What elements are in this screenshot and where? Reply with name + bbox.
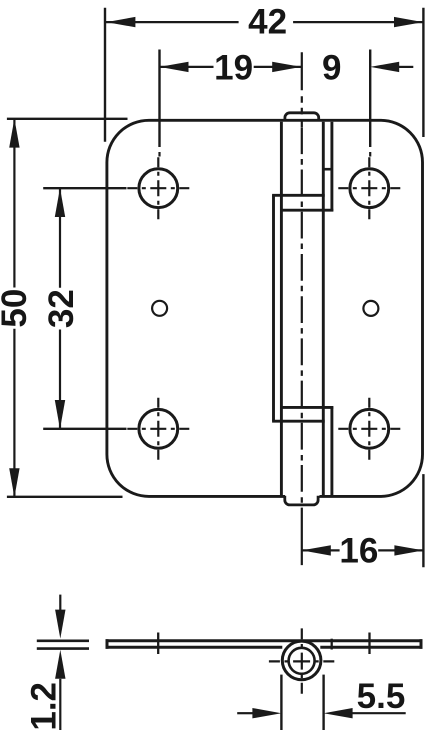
side view: barrel outer circle — [282, 641, 321, 680]
dimension 50: dimension line — [13, 119, 15, 288]
side view: barrel inner circle — [289, 648, 315, 674]
knuckle left edge line V2 — [280, 122, 283, 495]
dimension 32: extension line bottom — [43, 428, 126, 430]
crosshair top-left hole — [127, 157, 189, 219]
dimension 5.5: right outside arrow with tail — [324, 708, 353, 718]
dimension 32: arrowheads — [55, 188, 65, 217]
side view: bar left end cap — [106, 639, 109, 649]
screw hole top-right — [350, 169, 389, 208]
crosshair bottom-left hole — [127, 398, 189, 460]
dimension 16: extension line right — [422, 474, 424, 567]
dimension 19: dimension line — [160, 66, 214, 68]
svg-text:5.5: 5.5 — [357, 677, 406, 716]
svg-text:19: 19 — [214, 48, 253, 87]
svg-text:1.2: 1.2 — [25, 682, 64, 730]
knuckle joint line H1 — [272, 194, 325, 197]
small rung between V3 and V4 — [323, 168, 332, 171]
side view: barrel crosshair — [269, 628, 335, 695]
hinge leaf plate outline (plan view) — [107, 120, 423, 496]
side view: screw hole mark left — [157, 633, 159, 655]
right leaf edge line V4 upper segment — [330, 122, 333, 212]
dimension 1.2: lower arrow — [55, 650, 65, 679]
crosshair top-right hole — [338, 157, 400, 219]
dimension 32: extension line top — [43, 187, 126, 189]
side view: leaf bar top edge — [106, 639, 423, 642]
dimension 50: extension line top — [7, 118, 128, 120]
screw hole bottom-left — [139, 409, 178, 448]
small pin hole left — [152, 301, 167, 316]
dimension 1.2: extension line bottom — [37, 647, 89, 650]
knuckle right edge line V3 — [322, 122, 325, 495]
pin cap bottom — [285, 496, 318, 505]
dimension 1.2: upper arrow — [59, 595, 61, 612]
dimension 16: arrowheads — [302, 545, 331, 555]
dimension 19: arrowheads — [160, 62, 189, 72]
side view: screw hole mark right — [368, 633, 370, 655]
pin cap top — [285, 113, 319, 121]
screw hole top-left — [139, 169, 178, 208]
dimension 9: outside arrow with tail — [370, 62, 399, 72]
eraser gap in plate bottom edge behind pin cap — [285, 494, 320, 499]
dimension 42: arrowheads — [106, 17, 135, 27]
knuckle joint line H2 — [280, 209, 333, 212]
dimension 42: dimension line — [106, 21, 239, 23]
dimension 5.5: extension line left — [280, 675, 282, 730]
dimension 1.2: extension line top — [37, 639, 89, 642]
svg-text:50: 50 — [0, 289, 34, 328]
dimension 19: extension line left — [158, 50, 160, 148]
side view: leaf bar bottom edge (interrupted by barrel) — [106, 646, 283, 649]
right leaf edge line V4 lower segment — [330, 406, 333, 495]
svg-text:16: 16 — [339, 532, 378, 571]
knuckle joint line H3 — [280, 406, 333, 409]
hinge axis centerline — [301, 52, 303, 565]
left leaf knuckle edge line V1 — [272, 195, 275, 421]
side view: bar right end cap — [420, 639, 423, 649]
side view: leaf edge mark at knuckle — [331, 639, 333, 650]
dimension 32: dimension line — [59, 188, 61, 288]
dimension 16: dimension line — [302, 549, 340, 551]
small pin hole right — [363, 301, 378, 316]
dimension 50: extension line bottom — [7, 496, 123, 498]
dimension 9: extension line right — [369, 50, 371, 148]
screw hole bottom-right — [350, 409, 389, 448]
dimension 5.5: extension line right — [322, 675, 324, 730]
crosshair bottom-right hole — [338, 398, 400, 460]
dimension 50: arrowheads — [9, 119, 19, 148]
svg-text:32: 32 — [42, 289, 81, 328]
svg-text:9: 9 — [322, 48, 341, 87]
dimension 5.5: left outside arrow with tail — [237, 712, 253, 714]
svg-text:42: 42 — [248, 2, 287, 41]
knuckle joint line H4 — [272, 420, 325, 423]
dimension 42: extension line left — [104, 8, 106, 142]
dimension 42: extension line right — [422, 8, 424, 137]
